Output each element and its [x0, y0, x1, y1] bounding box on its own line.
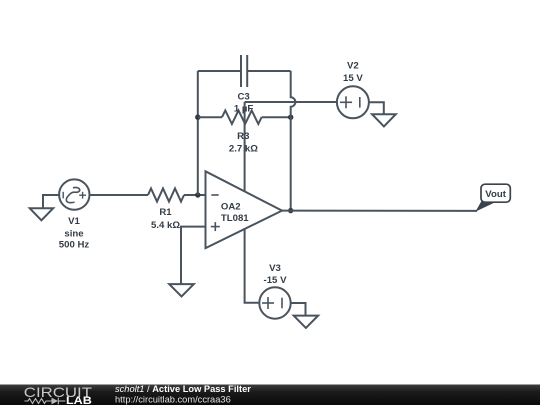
- value sine: [64, 229, 83, 240]
- label V1: [68, 216, 80, 227]
- svg-text:V2: V2: [347, 61, 359, 72]
- value 1 uF: [234, 104, 254, 115]
- footer bar: [0, 385, 540, 405]
- footer url line: [115, 394, 231, 404]
- value -15 V: [264, 275, 288, 286]
- wire feedback left vertical: [197, 71, 199, 195]
- svg-text:OA2: OA2: [221, 201, 241, 212]
- svg-text:C3: C3: [237, 91, 249, 102]
- wire R3 row right: [262, 116, 291, 118]
- ground (non-inverting input): [169, 284, 194, 296]
- svg-text:http://circuitlab.com/ccraa36: http://circuitlab.com/ccraa36: [115, 394, 231, 404]
- wire R3 row left: [198, 116, 222, 118]
- svg-text:TL081: TL081: [221, 213, 249, 224]
- svg-text:LAB: LAB: [66, 395, 92, 405]
- svg-text:1 µF: 1 µF: [234, 104, 254, 115]
- wire V2 to op-amp V+ pin (horizontal): [245, 101, 337, 103]
- logo resistor-diode art: [25, 398, 66, 405]
- wire feedback right vertical with hop over V+ wire: [291, 71, 296, 211]
- wire op-amp V- pin to V3: [245, 228, 260, 303]
- svg-text:R3: R3: [237, 131, 249, 142]
- value 15 V: [343, 73, 363, 84]
- svg-text:5.4 kΩ: 5.4 kΩ: [151, 220, 180, 231]
- svg-text:V1: V1: [68, 216, 80, 227]
- node dot R3 row right: [288, 115, 293, 120]
- wire op-amp V+ pin (vertical): [244, 102, 246, 191]
- svg-text:R1: R1: [159, 207, 172, 218]
- label C3: [237, 91, 249, 102]
- logo LAB text: [66, 395, 92, 405]
- footer title line: [115, 384, 251, 394]
- ground (V3): [294, 316, 318, 328]
- wire op-amp non-inverting input to ground: [181, 227, 206, 285]
- wire R1 to op-amp inverting input: [184, 194, 206, 196]
- node dot op-amp output: [288, 208, 293, 213]
- wire V3 to ground: [291, 303, 306, 316]
- value 5.4 kOhm: [151, 220, 180, 231]
- resistor R1: [148, 188, 184, 201]
- logo CIRCUIT text: [24, 385, 92, 400]
- wire capacitor row left: [198, 70, 241, 72]
- svg-text:500 Hz: 500 Hz: [59, 240, 90, 251]
- label V3: [269, 263, 281, 274]
- label R3: [237, 131, 249, 142]
- svg-text:scholt1 / Active Low Pass Filt: scholt1 / Active Low Pass Filter: [115, 384, 251, 394]
- net label Vout: [485, 189, 506, 200]
- value 500 Hz: [59, 240, 90, 251]
- ground (V1): [30, 208, 54, 220]
- node dot R3 row left: [195, 115, 200, 120]
- capacitor C3: [241, 55, 247, 87]
- label V2: [347, 61, 359, 72]
- voltage source V3: [259, 287, 290, 318]
- wire capacitor row right: [247, 70, 291, 72]
- label OA2: [221, 201, 241, 212]
- svg-text:-15 V: -15 V: [264, 275, 288, 286]
- svg-text:sine: sine: [64, 229, 83, 240]
- op-amp OA2: [206, 171, 283, 248]
- wire op-amp output to Vout: [282, 210, 477, 212]
- resistor R3: [222, 110, 262, 124]
- Vout flag box: [481, 184, 510, 202]
- svg-text:2.7 kΩ: 2.7 kΩ: [229, 144, 258, 155]
- svg-text:15 V: 15 V: [343, 73, 363, 84]
- label TL081: [221, 213, 249, 224]
- wire V1 to R1: [90, 194, 149, 196]
- value 2.7 kOhm: [229, 144, 258, 155]
- node junction dot at inverting input: [195, 192, 200, 197]
- voltage source V1: [59, 179, 89, 209]
- label R1: [159, 207, 172, 218]
- ground (V2): [372, 114, 396, 126]
- voltage source V2: [337, 86, 369, 118]
- svg-text:Vout: Vout: [485, 189, 506, 200]
- svg-text:V3: V3: [269, 263, 281, 274]
- wire V2 to ground: [369, 102, 384, 114]
- Vout flag tail: [476, 201, 497, 212]
- wire V1 left to ground: [43, 195, 60, 208]
